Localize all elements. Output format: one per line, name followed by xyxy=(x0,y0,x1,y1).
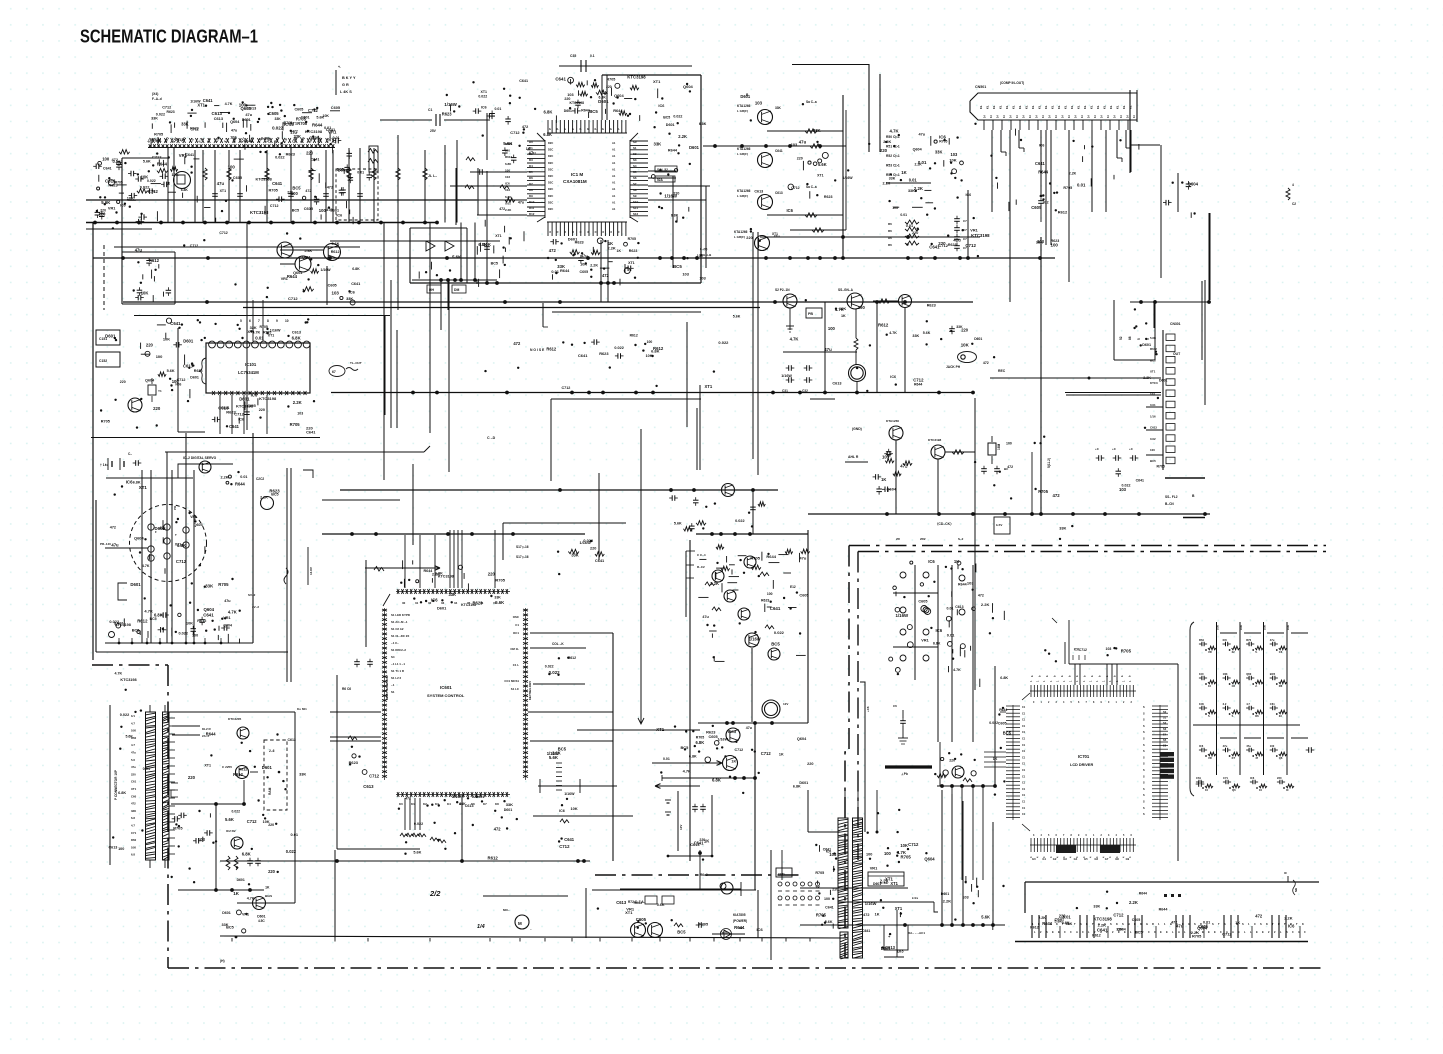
svg-text:0.01: 0.01 xyxy=(551,269,559,274)
svg-text:XT1: XT1 xyxy=(625,910,633,915)
svg-text:52: 52 xyxy=(1119,336,1123,340)
svg-text:Q604: Q604 xyxy=(145,378,155,382)
svg-text:XT1: XT1 xyxy=(197,103,205,108)
svg-text:D601: D601 xyxy=(239,397,250,402)
cluster: QFP inner top numbers xyxy=(1033,701,1133,837)
svg-text:2.2K: 2.2K xyxy=(1069,171,1077,175)
svg-text:10: 10 xyxy=(1259,788,1262,792)
cluster: right of IC601 discretes xyxy=(545,656,576,760)
svg-text:2R2: 2R2 xyxy=(920,537,926,541)
svg-text:D601: D601 xyxy=(720,931,729,935)
svg-text:100: 100 xyxy=(192,633,198,637)
svg-text:LCD DRIVER: LCD DRIVER xyxy=(1070,763,1093,767)
wire verticals center xyxy=(697,232,758,475)
CN2 flex connector strip A xyxy=(146,712,156,860)
svg-text:13.8V: 13.8V xyxy=(309,567,313,575)
svg-text:C1: C1 xyxy=(428,108,432,112)
svg-text:5.6K: 5.6K xyxy=(167,369,175,373)
svg-text:VR1: VR1 xyxy=(179,153,188,158)
svg-text:5.6K: 5.6K xyxy=(304,249,312,253)
svg-text:1/16W: 1/16W xyxy=(580,540,592,545)
cluster: bias resistors xyxy=(307,278,309,280)
svg-text:472: 472 xyxy=(327,186,333,190)
svg-text:S8: S8 xyxy=(633,188,637,192)
svg-text:472: 472 xyxy=(131,802,136,806)
wires to Q201 xyxy=(172,726,212,738)
svg-text:G R: G R xyxy=(342,83,349,87)
dashed section divider xyxy=(103,245,105,310)
svg-text:VR: VR xyxy=(1208,756,1212,760)
AHL note xyxy=(845,455,868,462)
svg-text:BC5: BC5 xyxy=(226,926,234,930)
svg-text:IC6: IC6 xyxy=(481,105,487,109)
svg-text:6: 6 xyxy=(249,319,251,323)
svg-text:220: 220 xyxy=(807,762,813,766)
svg-text:220: 220 xyxy=(832,888,838,892)
svg-text:2.2K: 2.2K xyxy=(552,751,561,756)
svg-text:A1: A1 xyxy=(612,161,616,165)
svg-text:2.2K: 2.2K xyxy=(590,264,598,268)
svg-text:P: P xyxy=(548,128,552,130)
svg-text:G0: G0 xyxy=(1032,857,1036,861)
svg-text:C605: C605 xyxy=(709,735,718,739)
svg-text:IC6: IC6 xyxy=(757,927,764,932)
svg-text:IC6: IC6 xyxy=(658,104,664,108)
svg-text:D9: D9 xyxy=(529,194,533,198)
cluster: IC101 left parts xyxy=(189,389,191,398)
svg-text:P: P xyxy=(578,128,582,130)
svg-text:E: E xyxy=(1052,930,1054,934)
svg-text:5.6K: 5.6K xyxy=(332,242,340,246)
svg-text:C641: C641 xyxy=(311,158,320,162)
svg-text:IC701: IC701 xyxy=(1078,754,1090,759)
svg-text:6.8K: 6.8K xyxy=(133,481,141,485)
svg-text:KL: KL xyxy=(1005,105,1009,109)
svg-text:33K: 33K xyxy=(813,128,821,133)
wire vertical right trunk xyxy=(1177,664,1179,861)
bus 5V horizontal xyxy=(808,513,1210,515)
svg-text:6.8K: 6.8K xyxy=(154,612,163,617)
circled part xyxy=(261,497,274,510)
svg-text:4: 4 xyxy=(1292,183,1294,187)
svg-text:100: 100 xyxy=(319,208,327,213)
svg-text:0.022: 0.022 xyxy=(147,179,156,183)
svg-text:S: S xyxy=(1110,922,1112,926)
svg-text:XT1: XT1 xyxy=(268,333,274,337)
svg-text:D601: D601 xyxy=(666,123,675,127)
svg-text:KL: KL xyxy=(1051,105,1055,109)
svg-text:R623: R623 xyxy=(761,598,769,602)
svg-text:472: 472 xyxy=(863,913,869,917)
svg-text:33K: 33K xyxy=(494,596,501,600)
svg-text:1/16: 1/16 xyxy=(1150,414,1156,418)
svg-text:E: E xyxy=(1262,930,1264,934)
motor M symbol xyxy=(503,908,532,931)
svg-text:12V: 12V xyxy=(679,825,683,830)
svg-text:10K: 10K xyxy=(1263,625,1267,630)
diode D701 xyxy=(712,926,745,940)
svg-text:0.022: 0.022 xyxy=(275,156,285,160)
svg-text:R612: R612 xyxy=(878,322,889,327)
svg-text:C–: C– xyxy=(128,452,132,456)
wire xyxy=(783,351,857,353)
svg-text:R644: R644 xyxy=(958,583,967,587)
Q103 transistor xyxy=(128,398,142,412)
IC601 right side wires xyxy=(528,633,700,816)
svg-text:1K: 1K xyxy=(901,170,907,175)
svg-text:R644: R644 xyxy=(560,268,570,273)
svg-text:1/16W: 1/16W xyxy=(749,637,761,642)
key matrix columns xyxy=(889,537,984,742)
wire xyxy=(773,301,848,303)
svg-text:S4: S4 xyxy=(633,164,637,168)
svg-text:Q604: Q604 xyxy=(134,535,144,540)
svg-text:BC5: BC5 xyxy=(681,745,690,750)
svg-text:R6–2: R6–2 xyxy=(700,873,708,877)
svg-text:2.2K: 2.2K xyxy=(1143,376,1151,380)
svg-text:103: 103 xyxy=(1150,392,1155,396)
svg-text:KL: KL xyxy=(1012,105,1016,109)
wire vertical right of IC1 xyxy=(672,176,674,268)
svg-text:5.6K: 5.6K xyxy=(1054,920,1062,924)
svg-text:C712: C712 xyxy=(1079,648,1087,652)
wire vertical long xyxy=(1009,188,1011,302)
svg-text:XT1: XT1 xyxy=(220,189,226,193)
svg-text:100: 100 xyxy=(1199,672,1204,676)
svg-text:D10: D10 xyxy=(529,200,535,204)
svg-text:A1: A1 xyxy=(612,148,616,152)
svg-text:C605: C605 xyxy=(799,592,809,597)
svg-text:C7: C7 xyxy=(963,237,967,241)
svg-text:10K: 10K xyxy=(131,845,136,849)
svg-text:D60: D60 xyxy=(131,838,137,842)
svg-text:33K: 33K xyxy=(775,106,782,110)
svg-text:C: C xyxy=(1254,922,1256,926)
svg-text:KTC3198: KTC3198 xyxy=(627,75,646,80)
svg-text:D601: D601 xyxy=(301,116,309,120)
svg-text:0.01: 0.01 xyxy=(947,632,955,637)
svg-text:8: 8 xyxy=(267,319,269,323)
wire vertical xyxy=(904,308,906,392)
svg-text:C613: C613 xyxy=(775,191,783,195)
svg-text:33: 33 xyxy=(441,601,445,605)
svg-text:D601: D601 xyxy=(183,338,194,343)
svg-text:C641: C641 xyxy=(595,558,605,563)
svg-text:LC75341M: LC75341M xyxy=(238,370,259,375)
svg-text:C641: C641 xyxy=(564,837,575,842)
IC101 LC75341 body xyxy=(199,343,310,393)
svg-text:BC5: BC5 xyxy=(728,729,737,734)
svg-text:R612: R612 xyxy=(568,656,576,660)
svg-text:IC6: IC6 xyxy=(1223,638,1228,642)
svg-text:5.6K: 5.6K xyxy=(657,903,665,907)
wire with dots xyxy=(662,775,757,781)
svg-text:47u: 47u xyxy=(135,248,143,253)
svg-text:C35: C35 xyxy=(570,54,576,58)
svg-text:33K: 33K xyxy=(250,325,257,330)
svg-text:33K: 33K xyxy=(1036,240,1043,245)
svg-text:C605: C605 xyxy=(269,111,280,116)
svg-text:1K: 1K xyxy=(993,757,998,761)
svg-text:47u: 47u xyxy=(919,133,926,137)
cluster: mid-right fuzz extra xyxy=(888,200,890,202)
svg-text:1/16W: 1/16W xyxy=(452,794,464,799)
svg-text:S5: S5 xyxy=(1163,738,1167,742)
svg-text:C712: C712 xyxy=(559,844,570,849)
svg-text:VR1: VR1 xyxy=(328,129,337,134)
svg-text:31: 31 xyxy=(415,601,419,605)
cluster: center small parts xyxy=(893,206,899,208)
svg-text:5.6K: 5.6K xyxy=(549,755,559,760)
svg-text:R612: R612 xyxy=(233,772,244,777)
svg-text:33: 33 xyxy=(1279,714,1282,718)
svg-text:R53 C▷1: R53 C▷1 xyxy=(886,164,900,168)
svg-text:220: 220 xyxy=(472,795,478,799)
svg-text:2.2K: 2.2K xyxy=(1129,900,1138,905)
svg-text:0.022: 0.022 xyxy=(989,721,998,725)
svg-text:2.2K: 2.2K xyxy=(260,495,268,499)
svg-text:BC5: BC5 xyxy=(673,264,682,269)
svg-text:G: G xyxy=(1146,922,1148,926)
svg-text:0.01: 0.01 xyxy=(505,201,511,205)
svg-text:472: 472 xyxy=(1255,914,1263,919)
svg-text:C712: C712 xyxy=(177,378,186,382)
wire xyxy=(114,246,360,248)
svg-text:100: 100 xyxy=(647,340,653,344)
cluster: IC1 box interior right fuzz xyxy=(678,144,680,146)
svg-text:C712: C712 xyxy=(152,155,162,160)
svg-text:KL: KL xyxy=(979,105,983,109)
svg-text:5.6K: 5.6K xyxy=(923,331,931,335)
svg-text:C C–4: C C–4 xyxy=(697,553,706,557)
series cap line above IC1 xyxy=(559,54,692,72)
svg-text:0.022: 0.022 xyxy=(614,346,624,350)
svg-text:5.6K: 5.6K xyxy=(674,522,682,526)
svg-text:4.7K: 4.7K xyxy=(142,564,150,568)
wire verticals to bottom connector xyxy=(940,666,995,880)
svg-text:10K: 10K xyxy=(127,196,134,201)
svg-text:R644: R644 xyxy=(634,901,642,905)
svg-text:S10: S10 xyxy=(633,200,639,204)
svg-text:6.8K: 6.8K xyxy=(793,785,801,789)
CN101 pin header row xyxy=(147,98,340,150)
headphone amp transistor bank xyxy=(700,93,846,257)
svg-text:BC5: BC5 xyxy=(589,109,598,114)
svg-text:220: 220 xyxy=(120,380,126,384)
svg-text:472: 472 xyxy=(405,796,411,800)
svg-text:R612: R612 xyxy=(630,334,638,338)
svg-text:C712: C712 xyxy=(908,842,919,847)
svg-text:R644: R644 xyxy=(206,732,217,737)
svg-text:47u: 47u xyxy=(217,181,225,186)
svg-text:VR1: VR1 xyxy=(921,639,928,643)
power section frame xyxy=(586,888,758,938)
svg-text:33K: 33K xyxy=(299,772,306,777)
svg-text:0.022: 0.022 xyxy=(718,340,729,345)
svg-text:Sa C–a: Sa C–a xyxy=(806,185,817,189)
sub bus wire xyxy=(937,784,997,788)
svg-text:1/16W: 1/16W xyxy=(270,328,281,332)
svg-text:R705: R705 xyxy=(1121,649,1132,654)
power box top edge xyxy=(503,473,626,560)
svg-text:Q604: Q604 xyxy=(1188,181,1199,186)
svg-text:33K: 33K xyxy=(275,117,282,121)
svg-text:100: 100 xyxy=(1051,243,1059,248)
svg-text:103: 103 xyxy=(951,152,959,157)
cluster: top-left board fuzz xyxy=(309,170,316,172)
svg-text:L GR(F): L GR(F) xyxy=(737,152,748,156)
svg-text:S: S xyxy=(1194,922,1196,926)
svg-text:47: 47 xyxy=(1255,756,1258,760)
cluster: right of IC1 xyxy=(676,217,678,223)
svg-text:22: 22 xyxy=(1232,650,1235,654)
svg-text:5.6: 5.6 xyxy=(131,758,135,762)
IC1 part number label xyxy=(563,172,587,184)
svg-text:33K: 33K xyxy=(151,116,158,120)
svg-text:0.01: 0.01 xyxy=(909,178,918,183)
board boundary dash-dot bottom xyxy=(168,967,1325,969)
svg-text:47u: 47u xyxy=(245,112,252,117)
svg-text:C605: C605 xyxy=(1198,924,1209,929)
svg-text:D6: D6 xyxy=(529,176,533,180)
wire to CN301 xyxy=(1066,394,1161,396)
svg-text:S1 AC–M −1: S1 AC–M −1 xyxy=(391,620,408,624)
svg-text:C605: C605 xyxy=(233,175,243,180)
svg-text:VR1: VR1 xyxy=(108,205,116,210)
svg-text:VR1: VR1 xyxy=(242,913,249,917)
CN702 connector outline xyxy=(1025,882,1319,913)
svg-text:1/16W: 1/16W xyxy=(444,102,457,107)
svg-text:Q604: Q604 xyxy=(302,256,310,260)
svg-text:P: P xyxy=(571,128,575,130)
svg-text:(X4): (X4) xyxy=(152,92,158,96)
wire vertical trunk C xyxy=(638,429,644,724)
svg-text:F–A–d: F–A–d xyxy=(152,97,162,101)
svg-text:E12: E12 xyxy=(790,585,796,589)
svg-text:A: A xyxy=(1178,930,1180,934)
svg-text:D4: D4 xyxy=(529,164,533,168)
Q302 transistor xyxy=(838,288,863,309)
svg-text:100: 100 xyxy=(858,305,866,310)
svg-text:NR: NR xyxy=(1294,888,1298,892)
svg-text:C712: C712 xyxy=(1222,932,1232,937)
svg-text:33K: 33K xyxy=(506,802,513,807)
svg-text:S1 LC: S1 LC xyxy=(511,687,520,691)
svg-text:47u: 47u xyxy=(1223,744,1228,748)
junction dots on B+ bus xyxy=(93,221,439,225)
svg-text:33K: 33K xyxy=(1093,905,1100,909)
wire clock line xyxy=(551,398,701,400)
svg-text:220: 220 xyxy=(268,823,274,827)
svg-text:R644: R644 xyxy=(734,925,745,930)
pickup coil pins xyxy=(148,506,197,561)
svg-text:RAM: RAM xyxy=(268,787,272,795)
svg-text:6.8K: 6.8K xyxy=(118,791,126,795)
svg-text:A1: A1 xyxy=(612,200,616,204)
wire vertical xyxy=(1209,213,1211,300)
svg-text:4.7K: 4.7K xyxy=(890,128,900,133)
svg-text:C712: C712 xyxy=(735,748,744,752)
svg-text:10K: 10K xyxy=(961,342,970,347)
svg-text:C61: C61 xyxy=(131,780,137,784)
svg-text:Q604: Q604 xyxy=(924,856,935,861)
svg-text:472: 472 xyxy=(1007,465,1013,469)
svg-text:A: A xyxy=(1046,930,1048,934)
cluster: line amp parts xyxy=(949,325,982,347)
svg-text:D601: D601 xyxy=(237,878,245,882)
svg-text:9: 9 xyxy=(276,319,278,323)
cluster: below driver xyxy=(681,726,757,763)
svg-text:K: K xyxy=(1302,922,1304,926)
svg-text:C7: C7 xyxy=(963,219,967,223)
svg-text:67: 67 xyxy=(332,370,336,374)
svg-text:S0: S0 xyxy=(633,140,637,144)
svg-text:10K: 10K xyxy=(323,114,330,118)
svg-text:47u: 47u xyxy=(799,140,807,145)
vertical wires B+ bus to audio bus xyxy=(247,223,475,481)
svg-text:1/16W: 1/16W xyxy=(321,268,332,272)
svg-text:0.01: 0.01 xyxy=(663,757,670,761)
svg-text:6.8K: 6.8K xyxy=(181,188,189,192)
svg-text:G4: G4 xyxy=(1074,857,1078,861)
svg-text:PU: PU xyxy=(173,506,177,510)
C520 capacitor on drop xyxy=(1038,191,1068,222)
svg-text:472: 472 xyxy=(1053,493,1061,498)
svg-text:IC101: IC101 xyxy=(245,362,257,367)
svg-text:Q60: Q60 xyxy=(1246,672,1252,676)
svg-text:C613: C613 xyxy=(292,331,301,335)
svg-text:KTA1266: KTA1266 xyxy=(737,104,751,108)
svg-text:0.022: 0.022 xyxy=(478,94,487,98)
svg-text:47u: 47u xyxy=(824,347,832,352)
svg-text:C712: C712 xyxy=(369,774,380,779)
svg-text:C712: C712 xyxy=(510,130,520,135)
svg-text:BC5: BC5 xyxy=(1150,358,1156,362)
svg-text:R612: R612 xyxy=(488,856,499,861)
svg-text:C641: C641 xyxy=(103,167,112,171)
svg-text:220: 220 xyxy=(188,775,196,780)
svg-text:BC5: BC5 xyxy=(1270,672,1276,676)
svg-text:R: R xyxy=(1278,922,1280,926)
svg-text:AHL R: AHL R xyxy=(848,455,859,459)
IC601 right pin name fuzz xyxy=(504,615,532,700)
svg-text:R623: R623 xyxy=(927,303,936,307)
svg-text:C6: C6 xyxy=(893,704,897,708)
svg-text:6.8K: 6.8K xyxy=(505,162,512,166)
CN2 pin labels xyxy=(131,714,137,857)
svg-text:C641: C641 xyxy=(825,905,834,909)
left board boundary vertical wire xyxy=(92,223,94,661)
svg-text:D2C: D2C xyxy=(548,181,553,185)
svg-text:0.022: 0.022 xyxy=(120,713,130,717)
svg-text:0.01: 0.01 xyxy=(357,171,364,175)
supply bracket xyxy=(665,791,713,861)
svg-text:D601: D601 xyxy=(190,375,199,379)
svg-text:220: 220 xyxy=(306,426,313,431)
svg-text:IC6: IC6 xyxy=(787,208,794,213)
cluster: top area values xyxy=(453,110,455,112)
svg-text:10K: 10K xyxy=(131,729,136,733)
svg-text:COL –K: COL –K xyxy=(552,642,564,646)
box upper left of strips xyxy=(808,790,879,834)
svg-text:5(11.2): 5(11.2) xyxy=(1047,458,1051,468)
R resistor vertical xyxy=(854,309,858,365)
wire vertical CN drop xyxy=(1208,213,1210,302)
svg-text:C712: C712 xyxy=(1113,913,1124,918)
svg-text:(H): (H) xyxy=(220,959,225,963)
svg-text:KTC3198: KTC3198 xyxy=(928,438,942,442)
svg-text:L GR(F): L GR(F) xyxy=(737,194,748,198)
